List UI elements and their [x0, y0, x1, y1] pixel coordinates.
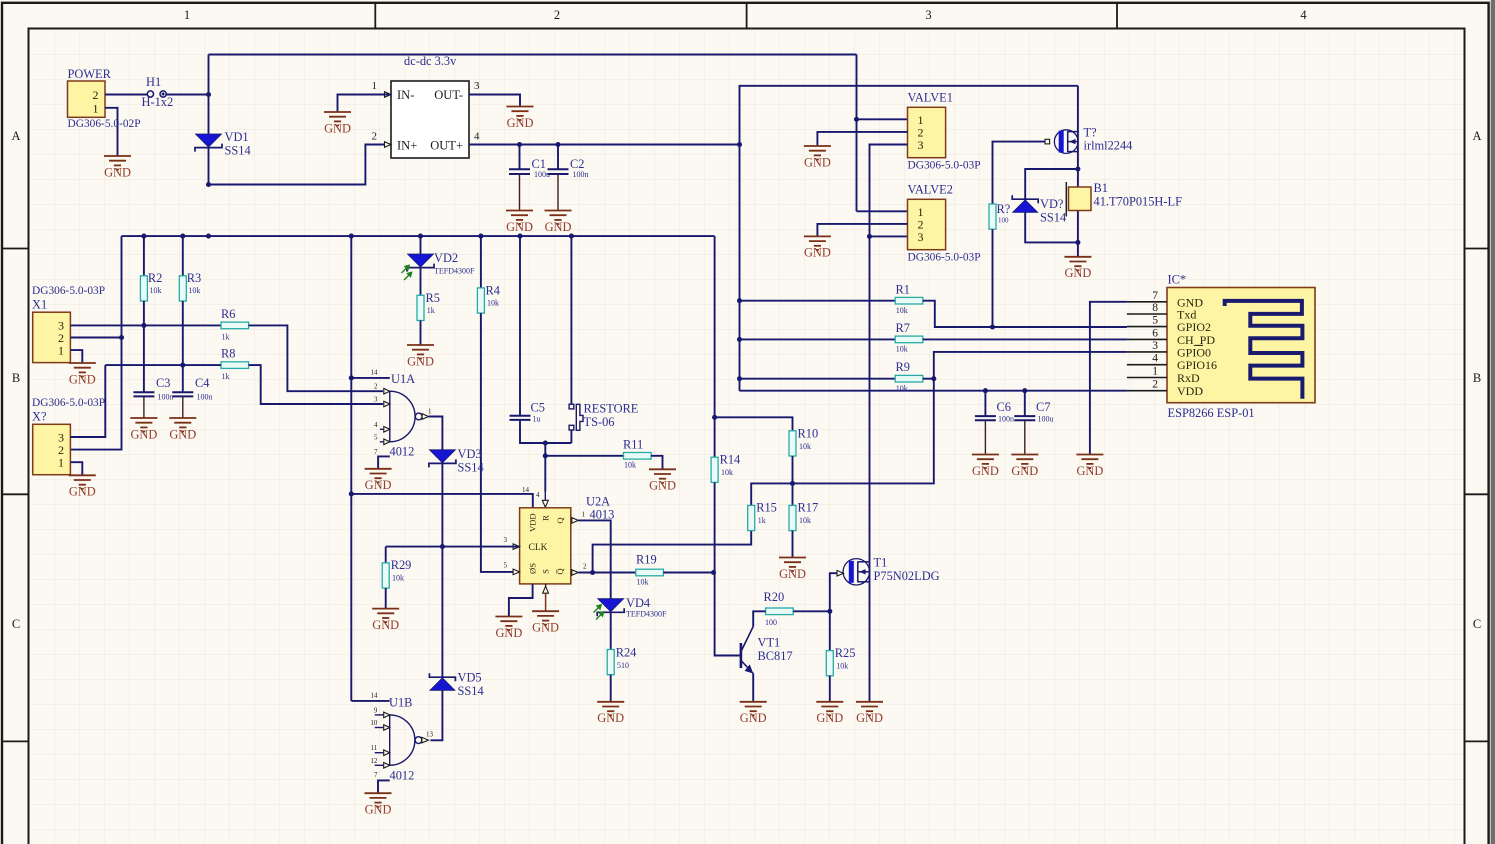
wire T? gate to R? — [993, 142, 1046, 204]
wire R25 to ground — [829, 676, 831, 702]
junction bus R3 — [180, 234, 185, 239]
svg-text:R4: R4 — [486, 284, 500, 298]
svg-text:B1: B1 — [1094, 181, 1108, 195]
svg-text:VD5: VD5 — [458, 671, 482, 685]
wire dc-dc OUT- to ground — [469, 95, 520, 107]
ground R11 — [649, 469, 676, 483]
svg-text:GND: GND — [532, 621, 559, 635]
zone tick top 2|3 — [746, 3, 748, 29]
svg-text:4012: 4012 — [390, 445, 415, 459]
resistor R4 — [477, 288, 484, 313]
svg-text:SS14: SS14 — [458, 684, 484, 698]
svg-text:4013: 4013 — [590, 508, 615, 522]
junction R9 tap — [737, 376, 742, 381]
svg-text:100n: 100n — [573, 170, 589, 179]
svg-text:U1B: U1B — [389, 696, 412, 710]
wire to VALVE2 pin1 — [857, 210, 908, 212]
svg-text:DG306-5.0-02P: DG306-5.0-02P — [68, 118, 141, 130]
connector X1 — [33, 312, 71, 362]
resistor R3 — [179, 276, 186, 301]
svg-text:4: 4 — [374, 421, 378, 429]
svg-text:R20: R20 — [764, 590, 785, 604]
svg-text:1: 1 — [372, 80, 378, 92]
zone tick left A|B — [2, 248, 29, 250]
svg-text:C4: C4 — [195, 376, 209, 390]
svg-text:OUT-: OUT- — [434, 88, 463, 102]
svg-text:10k: 10k — [896, 384, 908, 393]
svg-text:RxD: RxD — [1177, 371, 1200, 385]
svg-text:S: S — [541, 569, 551, 574]
wire +12V riser — [208, 55, 210, 95]
wire T1 gate from R20 node — [830, 573, 837, 611]
svg-text:13: 13 — [426, 731, 434, 739]
svg-text:T?: T? — [1084, 126, 1097, 140]
svg-text:H-1x2: H-1x2 — [142, 95, 174, 109]
svg-text:ESP8266 ESP-01: ESP8266 ESP-01 — [1168, 406, 1255, 420]
svg-text:R6: R6 — [221, 307, 235, 321]
svg-text:IN-: IN- — [397, 88, 414, 102]
svg-text:GND: GND — [495, 626, 522, 640]
pin 8 Txd of ESP module — [1127, 313, 1167, 315]
junction T? node lower — [1075, 240, 1080, 245]
wire U1B pin7 to ground — [378, 780, 390, 793]
wire VD1 cathode to node — [208, 148, 210, 184]
svg-text:IC*: IC* — [1168, 273, 1187, 287]
wire R24 to ground — [610, 675, 612, 702]
gate U1A 4012 body — [390, 391, 415, 442]
svg-text:100n: 100n — [998, 415, 1014, 424]
wire VALVE1 pin3 down T1 column — [870, 145, 908, 702]
wire +12V drop to valves — [856, 55, 858, 212]
wire RESTORE bottom to junction — [570, 430, 572, 443]
svg-text:GND: GND — [804, 155, 831, 169]
resistor R10 — [789, 431, 796, 456]
ground R25 — [816, 702, 843, 716]
wire node up to GPIO0 run — [934, 352, 1127, 379]
wire ESP GND pin to ground — [1090, 302, 1127, 455]
wire C5 bottom to junction — [520, 420, 571, 443]
svg-text:2: 2 — [583, 563, 587, 571]
wire bus to U1A/U1B supply column — [350, 236, 352, 701]
svg-text:3: 3 — [925, 8, 931, 22]
ground R17 — [779, 558, 806, 572]
connector VALVE2 — [908, 199, 946, 249]
svg-text:R9: R9 — [896, 360, 910, 374]
svg-text:C: C — [1473, 617, 1481, 631]
junction C7 tap — [1022, 388, 1027, 393]
wire R8 to U1A pin3 — [249, 365, 383, 404]
svg-text:1: 1 — [58, 344, 64, 358]
svg-text:14: 14 — [522, 486, 530, 494]
svg-text:VD3: VD3 — [458, 447, 482, 461]
svg-text:GND: GND — [69, 372, 96, 386]
wire VALVE1 pin2 to ground — [817, 132, 907, 146]
wire main 3.3V bus — [122, 235, 715, 237]
svg-text:C1: C1 — [532, 157, 546, 171]
wire R7 left — [740, 338, 896, 340]
svg-text:GND: GND — [69, 485, 96, 499]
wire VDD feed to U2A pin14 — [351, 494, 533, 508]
svg-text:8: 8 — [1152, 302, 1158, 314]
wire CLK net — [386, 546, 520, 548]
diode VD? SS14 — [1012, 195, 1038, 203]
svg-text:R3: R3 — [187, 271, 201, 285]
wire H1 to VD1 node — [166, 94, 209, 96]
resistor R5 — [417, 295, 424, 320]
gate U1B 4012 body — [390, 715, 415, 765]
svg-text:GND: GND — [506, 220, 533, 234]
svg-text:VDD: VDD — [1177, 384, 1203, 398]
capacitor C6 — [984, 391, 986, 416]
svg-text:10k: 10k — [392, 574, 404, 583]
resistor R7 — [895, 336, 923, 343]
svg-text:P75N02LDG: P75N02LDG — [874, 569, 940, 583]
junction C5/RESTORE node — [543, 440, 548, 445]
svg-text:TS-06: TS-06 — [584, 415, 615, 429]
svg-text:VD4: VD4 — [626, 596, 650, 610]
wire bus to RESTORE switch — [570, 236, 572, 404]
svg-text:1: 1 — [93, 101, 99, 115]
svg-text:DG306-5.0-03P: DG306-5.0-03P — [32, 285, 105, 297]
junction R9/GPIO0/divider node — [931, 376, 936, 381]
svg-text:U1A: U1A — [391, 372, 415, 386]
svg-text:R: R — [541, 515, 551, 521]
svg-text:10k: 10k — [896, 345, 908, 354]
wire R2 to C3 — [143, 301, 145, 392]
svg-text:R29: R29 — [391, 558, 412, 572]
junction T? node upper — [1075, 166, 1080, 171]
wire VT1 emitter to ground — [752, 674, 754, 702]
wire X2 pin1 to ground — [70, 462, 82, 475]
wire U1A output to VD3 — [429, 417, 443, 450]
wire reset node to R11 — [545, 455, 623, 457]
svg-text:ØS: ØS — [528, 563, 538, 574]
svg-text:4012: 4012 — [390, 769, 415, 783]
resistor R25 — [826, 651, 833, 676]
svg-text:GND: GND — [816, 711, 843, 725]
junction C1 tap — [517, 142, 522, 147]
zone tick top 3|4 — [1116, 3, 1118, 29]
junction VALVE1 pin1 — [854, 117, 859, 122]
svg-text:C3: C3 — [156, 376, 170, 390]
svg-text:GND: GND — [597, 711, 624, 725]
junction R19/R14 node — [711, 570, 716, 575]
wire R9 right to node — [923, 378, 934, 380]
junction bus C5 — [517, 234, 522, 239]
junction VALVE2 pin3 — [867, 234, 872, 239]
svg-text:100n: 100n — [158, 393, 174, 402]
junction R20/R25/T1-gate node — [827, 609, 832, 614]
photodiode VD2 TEFD4300F — [408, 254, 434, 267]
svg-text:VDD: VDD — [528, 513, 538, 532]
wire X1 pin2 — [70, 337, 121, 339]
capacitor C2 — [557, 145, 559, 170]
svg-text:VALVE2: VALVE2 — [908, 183, 953, 197]
svg-text:10k: 10k — [721, 468, 733, 477]
svg-text:2: 2 — [93, 88, 99, 102]
ground dc-dc OUT- — [507, 107, 534, 121]
wire R19 to R14 column — [663, 572, 713, 574]
svg-text:B: B — [12, 371, 20, 385]
svg-text:3: 3 — [474, 80, 480, 92]
ground VT1 — [740, 702, 767, 716]
ground C2 — [545, 211, 572, 225]
ground R24 — [597, 702, 624, 716]
svg-text:R?: R? — [997, 202, 1011, 216]
wire R20 to node — [793, 610, 830, 612]
wire X2 pin3 run to R8 — [105, 364, 221, 366]
svg-text:RESTORE: RESTORE — [584, 402, 639, 416]
resistor R11 — [624, 453, 652, 460]
wire R1 to GPIO2 net — [923, 301, 1127, 327]
wire VALVE2 pin3 stub — [870, 235, 908, 237]
svg-text:T1: T1 — [874, 556, 888, 570]
resistor R20 — [766, 608, 794, 615]
wire bus to R2 — [143, 236, 145, 276]
svg-text:GND: GND — [324, 121, 351, 135]
svg-text:1: 1 — [184, 8, 190, 22]
svg-text:C: C — [12, 617, 20, 631]
svg-text:1k: 1k — [222, 333, 230, 342]
wire flyback branch upper — [1025, 169, 1078, 199]
wire to R10 — [715, 417, 793, 431]
svg-text:X1: X1 — [32, 298, 47, 312]
wire X1 pin3 to R6 — [70, 324, 221, 326]
svg-text:7: 7 — [374, 771, 378, 779]
wire R17 to ground — [792, 531, 794, 558]
svg-text:10k: 10k — [150, 286, 162, 295]
svg-text:10k: 10k — [624, 461, 636, 470]
ground VALVE2 — [804, 236, 831, 250]
zone tick top 1|2 — [374, 3, 376, 29]
pin 1 RxD of ESP module — [1127, 377, 1167, 379]
ground C6 — [972, 455, 999, 469]
svg-text:GND: GND — [1011, 464, 1038, 478]
wire bus left drop to X connectors — [70, 236, 121, 450]
svg-text:IN+: IN+ — [397, 139, 417, 153]
junction U2A VDD tap — [349, 491, 354, 496]
svg-text:GND: GND — [804, 246, 831, 260]
pin 5 GPIO2 of ESP module — [1127, 326, 1167, 328]
svg-text:SS14: SS14 — [225, 144, 251, 158]
wire VD4 to R24 — [610, 613, 612, 650]
wire R11 to ground — [651, 456, 662, 470]
diode VD3 SS14 — [429, 450, 455, 463]
svg-text:A: A — [1472, 129, 1481, 143]
junction C6 tap — [983, 388, 988, 393]
svg-text:12: 12 — [370, 757, 378, 765]
svg-text:1: 1 — [58, 456, 64, 470]
wire reset node down — [544, 443, 546, 492]
svg-text:10k: 10k — [836, 662, 848, 671]
svg-text:R24: R24 — [616, 646, 637, 660]
right window edge band — [1491, 0, 1495, 844]
svg-text:10k: 10k — [487, 299, 499, 308]
svg-text:GND: GND — [104, 165, 131, 179]
svg-text:9: 9 — [374, 706, 378, 714]
junction bus R4 — [478, 234, 483, 239]
resistor R? — [989, 204, 996, 229]
svg-text:VD1: VD1 — [225, 130, 249, 144]
transistor T? irlml2244 — [1054, 130, 1078, 154]
zone tick left C|D — [2, 740, 29, 742]
pin 7 GND of ESP module — [1127, 301, 1167, 303]
resistor R15 — [748, 505, 755, 530]
capacitor C7 — [1024, 391, 1026, 416]
wire CLK node down to VD5 — [441, 547, 443, 678]
svg-text:5: 5 — [1152, 315, 1158, 327]
resistor R8 — [221, 362, 249, 369]
svg-text:VD?: VD? — [1040, 197, 1063, 211]
junction gate column on GPIO2 — [990, 324, 995, 329]
svg-text:R15: R15 — [756, 501, 777, 515]
svg-text:10k: 10k — [188, 286, 200, 295]
wire VD5 to U1B output — [430, 690, 442, 740]
zone tick right C|D — [1465, 740, 1490, 742]
junction H1/VD1 node — [206, 92, 211, 97]
svg-text:41.T70P015H-LF: 41.T70P015H-LF — [1094, 195, 1183, 209]
svg-text:GND: GND — [507, 116, 534, 130]
svg-text:C6: C6 — [997, 400, 1011, 414]
svg-text:100: 100 — [998, 217, 1009, 225]
wire 3.3V output run — [469, 144, 740, 146]
svg-text:GND: GND — [169, 427, 196, 441]
wire bus to R4 — [480, 236, 482, 288]
svg-text:R1: R1 — [896, 283, 910, 297]
wire flyback branch lower — [1025, 212, 1078, 242]
junction C2 tap — [555, 142, 560, 147]
ground C1 — [506, 211, 533, 225]
flip-flop U2A 4013 body — [520, 508, 571, 584]
ground T1 source — [856, 702, 883, 716]
svg-text:Q: Q — [555, 517, 565, 524]
resistor R1 — [895, 297, 923, 304]
svg-text:5: 5 — [504, 562, 508, 570]
svg-text:4: 4 — [1300, 8, 1307, 22]
svg-text:10k: 10k — [799, 442, 811, 451]
svg-text:4: 4 — [1152, 353, 1158, 365]
junction U1A pin14 — [349, 375, 354, 380]
svg-text:2: 2 — [1152, 379, 1158, 391]
svg-text:SS14: SS14 — [1040, 211, 1066, 225]
wire R7 to CH_PD — [923, 338, 1127, 340]
resistor R19 — [636, 569, 664, 576]
svg-text:VALVE1: VALVE1 — [908, 91, 953, 105]
svg-text:GND: GND — [365, 803, 392, 817]
wire R10 to divider node — [792, 456, 794, 483]
svg-text:C2: C2 — [570, 157, 584, 171]
wire R? to GPIO2 net — [992, 229, 994, 327]
svg-text:2: 2 — [372, 131, 378, 143]
wire bus to VD2 — [420, 236, 422, 254]
svg-text:GND: GND — [1064, 266, 1091, 280]
wire VD2 to R5 — [420, 268, 422, 295]
wire 3.3V drop to T? drain — [1077, 86, 1079, 132]
svg-text:510: 510 — [617, 661, 629, 670]
svg-text:10k: 10k — [799, 516, 811, 525]
transistor T1 P75N02LDG — [843, 559, 869, 585]
pin 6 of U2A — [545, 584, 547, 587]
wire POWER pin1 drop — [105, 108, 118, 156]
wire feedback from R15 — [593, 531, 752, 573]
pin 4 GPIO16 of ESP module — [1127, 364, 1167, 366]
svg-text:2: 2 — [374, 383, 378, 391]
wire bus corner down R14 column — [714, 236, 716, 417]
capacitor C3 — [133, 391, 154, 393]
diode VD5 SS14 — [429, 673, 455, 681]
wire bus to R3 — [182, 236, 184, 276]
wire VT1 collector to R20 — [753, 611, 765, 626]
junction R2/R6 node — [141, 323, 146, 328]
svg-text:DG306-5.0-03P: DG306-5.0-03P — [908, 160, 981, 172]
svg-text:GND: GND — [407, 354, 434, 368]
svg-text:GND: GND — [972, 464, 999, 478]
ground VALVE1 — [804, 146, 831, 160]
svg-text:GND: GND — [856, 711, 883, 725]
svg-text:C7: C7 — [1036, 400, 1050, 414]
svg-text:100u: 100u — [1038, 415, 1054, 424]
svg-text:10k: 10k — [637, 578, 649, 587]
pin 2 VDD of ESP module — [1127, 390, 1167, 392]
svg-text:6: 6 — [1152, 327, 1158, 339]
wire VALVE1 pin1 stub — [857, 118, 908, 120]
svg-text:1: 1 — [582, 511, 586, 519]
junction 3.3V branch node — [737, 142, 742, 147]
wire R3 to C4 — [182, 301, 184, 392]
ground U1B pin7 — [365, 793, 392, 807]
capacitor C1 — [519, 145, 521, 170]
svg-text:GND: GND — [1076, 464, 1103, 478]
wire R5 to ground — [420, 321, 422, 346]
wire CLK corner to R29 — [385, 547, 387, 563]
svg-text:3: 3 — [918, 230, 924, 244]
svg-text:GND: GND — [130, 427, 157, 441]
wire R1 left — [740, 300, 896, 302]
svg-text:1k: 1k — [427, 306, 435, 315]
ground C7 — [1011, 455, 1038, 469]
wire VDD run to ESP — [740, 390, 1127, 392]
ground B1 — [1064, 257, 1091, 271]
svg-text:C5: C5 — [531, 401, 545, 415]
wire VD1 node to IN+ riser — [209, 145, 392, 185]
svg-text:2: 2 — [554, 8, 560, 22]
capacitor C4 — [172, 391, 193, 393]
diode VD1 SS14 — [196, 134, 222, 147]
wire divider node to R9 column — [793, 379, 934, 484]
junction bus VD1 column — [206, 234, 211, 239]
junction R10 tap — [712, 415, 717, 420]
svg-text:1: 1 — [1152, 366, 1158, 378]
connector X2 — [33, 424, 71, 474]
connector POWER DG306-5.0-02P — [68, 81, 106, 117]
wire R14 upper — [714, 417, 716, 457]
pin 3 GPIO0 of ESP module — [1127, 351, 1167, 353]
wire R4 to U2A set pin — [481, 313, 513, 572]
svg-text:dc-dc 3.3v: dc-dc 3.3v — [404, 54, 457, 68]
svg-text:H1: H1 — [146, 75, 161, 89]
transistor VT1 BC817 — [741, 627, 753, 674]
fuse B1 41.T70P015H-LF — [1069, 187, 1092, 211]
svg-text:GND: GND — [649, 479, 676, 493]
wire POWER pin2 to H1 — [105, 94, 147, 96]
pin 6 CH_PD of ESP module — [1127, 338, 1167, 340]
junction R3/R8 node — [180, 363, 185, 368]
zone tick left B|C — [2, 493, 29, 495]
wire Q output to VD4 — [578, 520, 611, 598]
junction X1 pin2 tap — [119, 335, 124, 340]
ground POWER pin1 — [104, 156, 131, 170]
svg-text:X?: X? — [32, 410, 46, 424]
